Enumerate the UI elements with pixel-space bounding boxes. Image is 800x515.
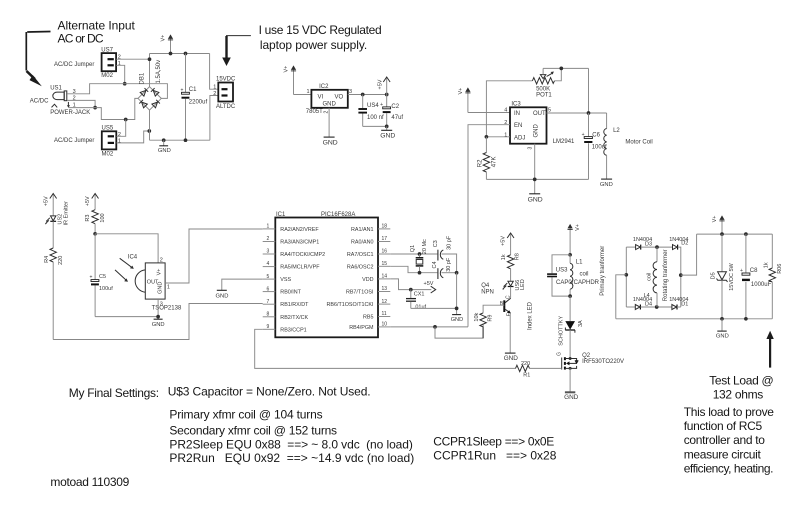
svg-text:My Final Settings:: My Final Settings: bbox=[69, 386, 159, 400]
ground (bridge) bbox=[158, 140, 171, 154]
junction dot L1 top bbox=[568, 253, 572, 257]
wire right column to top rail bbox=[681, 234, 697, 275]
+5V arrow (IC2 out) bbox=[383, 77, 390, 95]
svg-text:R8: R8 bbox=[515, 253, 521, 260]
pin 7 stub (RB1/RX/DT) bbox=[263, 299, 309, 308]
pin 14 stub (VDD) bbox=[362, 274, 390, 283]
wire D3-D2 top row bbox=[626, 246, 635, 248]
junction dot Q2 source bbox=[569, 367, 572, 370]
svg-text:1: 1 bbox=[504, 132, 507, 138]
resistor R2 47K bbox=[483, 137, 489, 180]
svg-text:M02: M02 bbox=[101, 73, 113, 79]
ground (IC2) bbox=[323, 137, 338, 147]
svg-text:1: 1 bbox=[167, 284, 170, 290]
pin 8 stub (RB2/TX/CK) bbox=[263, 311, 309, 320]
svg-text:PR2Sleep EQU 0x88 ==> ~ 8.0 v: PR2Sleep EQU 0x88 ==> ~ 8.0 vdc (no load… bbox=[169, 437, 412, 451]
svg-text:This load to prove: This load to prove bbox=[684, 405, 775, 419]
pin 11 stub (RB5) bbox=[363, 311, 390, 320]
svg-text:efficiency, heating.: efficiency, heating. bbox=[684, 462, 773, 476]
V+ symbol (test load rail) bbox=[719, 215, 724, 234]
wire US7 pin1 down to AC line bbox=[116, 65, 124, 83]
svg-text:D2: D2 bbox=[681, 241, 688, 247]
diode D1 1N4004 bbox=[672, 305, 677, 310]
pin 6 stub (RB0/INT) bbox=[263, 286, 302, 295]
wire IC2 VO line bbox=[348, 94, 387, 96]
wire bridge top column bbox=[149, 54, 151, 87]
svg-text:GND: GND bbox=[600, 182, 613, 188]
svg-text:D1: D1 bbox=[681, 301, 688, 307]
capacitor C5 plates bbox=[90, 275, 99, 286]
top rail (secondary) bbox=[697, 233, 773, 235]
svg-text:GND: GND bbox=[323, 140, 338, 147]
svg-text:1k: 1k bbox=[501, 254, 507, 260]
IC2 GND stub bbox=[328, 108, 330, 137]
svg-text:100uf: 100uf bbox=[99, 286, 113, 292]
wire D4-D1 bottom row bbox=[626, 306, 635, 308]
junction dot R3/C5/TSOP bbox=[93, 232, 97, 236]
svg-text:POT1: POT1 bbox=[536, 92, 552, 98]
svg-text:1: 1 bbox=[307, 89, 310, 95]
callout arrow head (down to 15VDC) bbox=[222, 36, 231, 66]
svg-text:C3: C3 bbox=[433, 240, 439, 247]
wire C5 bottom to TSOP gnd bbox=[95, 316, 158, 318]
svg-text:+: + bbox=[380, 102, 383, 108]
junction dot D5 bottom bbox=[720, 317, 724, 321]
junction dot ADJ/R2 bbox=[485, 135, 489, 139]
svg-text:NPN: NPN bbox=[481, 290, 494, 296]
svg-text:R1: R1 bbox=[523, 373, 530, 379]
junction dot L4 top bbox=[655, 245, 659, 249]
svg-text:18: 18 bbox=[382, 224, 388, 230]
svg-text:R06: R06 bbox=[777, 264, 783, 274]
pin 15 stub (RA6/OSC2) bbox=[347, 261, 390, 270]
wire ADJ bbox=[486, 136, 510, 138]
junction dot left column mid bbox=[624, 273, 628, 277]
svg-text:GND: GND bbox=[564, 394, 579, 401]
ground (crystal) bbox=[451, 315, 463, 323]
junction dot V+ stem bbox=[169, 52, 173, 56]
junction dot pot wiper bbox=[559, 67, 563, 71]
wire EN long vertical bbox=[468, 125, 510, 327]
svg-text:CCPR1Sleep ==> 0x0E: CCPR1Sleep ==> 0x0E bbox=[433, 434, 554, 448]
svg-text:2: 2 bbox=[160, 257, 163, 263]
svg-text:Secondary xfmr coil @ 152 turn: Secondary xfmr coil @ 152 turns bbox=[169, 423, 337, 437]
test load arrow bbox=[766, 331, 773, 368]
+5V arrow (R3 column) bbox=[92, 194, 99, 210]
wire OUT to L2 bbox=[606, 113, 608, 129]
wire pin16 after C3 bbox=[442, 254, 457, 273]
capacitor US4 plates bbox=[358, 109, 367, 113]
LED US6 index bbox=[503, 281, 514, 290]
svg-text:C: C bbox=[505, 295, 511, 299]
svg-text:2: 2 bbox=[118, 132, 121, 138]
svg-text:+: + bbox=[740, 268, 743, 274]
svg-text:V+: V+ bbox=[284, 66, 290, 73]
svg-text:4: 4 bbox=[504, 108, 507, 114]
svg-text:100 nf: 100 nf bbox=[367, 115, 384, 121]
junction dot OUT/C6 bbox=[587, 111, 591, 115]
svg-text:IRF530TO220V: IRF530TO220V bbox=[582, 359, 624, 365]
wire L1 to schottky bbox=[569, 296, 571, 321]
svg-text:CCPR1Run ==> 0x28: CCPR1Run ==> 0x28 bbox=[433, 448, 556, 462]
resistor R4 220 bbox=[50, 248, 56, 340]
wire TSOP gnd stub bbox=[157, 299, 159, 319]
svg-text:1: 1 bbox=[213, 85, 216, 91]
V+ symbol (primary) bbox=[568, 224, 573, 255]
pin 4 stub (RA5/MCLR/VPF) bbox=[263, 261, 321, 270]
svg-text:motoad 110309: motoad 110309 bbox=[50, 475, 129, 489]
capacitor C6 plates bbox=[582, 132, 593, 143]
svg-text:IC4: IC4 bbox=[128, 254, 138, 260]
svg-text:R4: R4 bbox=[44, 256, 50, 263]
ground (L2) bbox=[600, 179, 613, 188]
wire pin10 detour to R9 bottom bbox=[435, 324, 483, 339]
IC3 LM2941 box bbox=[510, 107, 547, 143]
junction dot C2 top bbox=[385, 93, 389, 97]
svg-text:Index LED: Index LED bbox=[527, 301, 533, 330]
POT1 wiper bbox=[540, 68, 554, 78]
callout text "Alternate Input / AC or DC" bbox=[58, 19, 136, 46]
zener diode D5 bbox=[717, 272, 728, 282]
junction dot right column mid bbox=[679, 273, 683, 277]
svg-text:AC/DC: AC/DC bbox=[30, 98, 49, 104]
svg-text:+5V: +5V bbox=[85, 196, 91, 206]
wire pot to OUT line bbox=[588, 68, 590, 113]
callout leader line bbox=[26, 32, 50, 71]
wire L2 to gnd bbox=[606, 155, 608, 179]
wire US5 pin2 bbox=[117, 120, 126, 137]
callout leader line to 15VDC bbox=[227, 36, 251, 58]
svg-text:V+: V+ bbox=[575, 224, 581, 231]
+5V arrow (VDD) bbox=[431, 286, 436, 293]
bottom GND line bbox=[150, 139, 210, 141]
svg-text:ALTDC: ALTDC bbox=[216, 104, 236, 110]
capacitor C3 bbox=[438, 250, 443, 261]
svg-text:Rotating tranformer: Rotating tranformer bbox=[663, 249, 669, 301]
DB1 diode bottom-right bbox=[152, 100, 160, 108]
wire V+ to IC2 VI bbox=[294, 94, 312, 96]
bridge bottom column bbox=[149, 110, 151, 140]
wire TSOP OUT to PIC pin1 bbox=[165, 229, 263, 283]
svg-text:OUT: OUT bbox=[533, 111, 546, 117]
svg-text:GND: GND bbox=[716, 333, 729, 339]
svg-text:47K: 47K bbox=[491, 157, 497, 168]
svg-text:+5V: +5V bbox=[424, 281, 434, 287]
junction dot CX1 gnd bbox=[455, 307, 459, 311]
bottom rail (secondary) bbox=[616, 318, 773, 320]
ground (VSS) bbox=[216, 290, 229, 299]
svg-text:SCHOTTKY: SCHOTTKY bbox=[559, 316, 565, 346]
ground (C2/US4) bbox=[380, 126, 395, 139]
wire pin9 RB3/CCP1 to R1 bbox=[255, 329, 516, 368]
inductor L1 bbox=[570, 255, 573, 296]
svg-text:IC3: IC3 bbox=[511, 101, 521, 107]
wire pin15 after C4 bbox=[442, 272, 457, 274]
svg-text:132 ohms: 132 ohms bbox=[713, 388, 764, 402]
capacitor C5 wires bbox=[94, 234, 96, 317]
svg-text:RA7/OSC1: RA7/OSC1 bbox=[347, 252, 374, 258]
potentiometer POT1 zigzag bbox=[532, 78, 554, 84]
svg-text:RA3/AN3/CMP1: RA3/AN3/CMP1 bbox=[280, 240, 319, 246]
svg-text:EN: EN bbox=[514, 123, 522, 129]
IR receiver IC4 TSOP box bbox=[135, 263, 165, 299]
svg-text:RB7/T1OSI: RB7/T1OSI bbox=[346, 290, 374, 296]
svg-text:IR Emitter: IR Emitter bbox=[64, 201, 70, 226]
left diode column bbox=[625, 247, 627, 307]
svg-text:2: 2 bbox=[267, 236, 270, 242]
svg-text:.01uf: .01uf bbox=[414, 305, 427, 311]
wire jack pin3 to AC top line bbox=[67, 84, 167, 99]
schottky diode D6 bbox=[565, 321, 575, 333]
DB1 diode bottom-left bbox=[139, 100, 147, 108]
svg-text:IC2: IC2 bbox=[319, 84, 329, 90]
svg-text:220: 220 bbox=[58, 256, 64, 265]
wire D5 column top bbox=[721, 234, 723, 272]
IC3 GND stub bbox=[534, 144, 536, 194]
svg-text:15: 15 bbox=[382, 261, 388, 267]
svg-text:V+: V+ bbox=[458, 88, 464, 95]
IC1 PIC16F628A box bbox=[275, 218, 378, 338]
svg-text:C6: C6 bbox=[592, 133, 600, 139]
svg-text:AC/DC Jumper: AC/DC Jumper bbox=[54, 138, 94, 144]
pin 16 stub (RA7/OSC1) bbox=[347, 249, 390, 258]
pin 13 stub (RB7/T1OSI) bbox=[346, 286, 390, 295]
junction dot GND stub bbox=[162, 138, 166, 142]
junction dot crystal bottom bbox=[418, 271, 422, 275]
svg-text:IN: IN bbox=[514, 111, 520, 117]
svg-text:2: 2 bbox=[213, 91, 216, 97]
svg-text:7: 7 bbox=[267, 299, 270, 305]
wire V+ to IC3 IN bbox=[468, 112, 510, 114]
svg-text:100: 100 bbox=[100, 213, 106, 222]
wire D4 to L4 bottom bbox=[640, 306, 672, 308]
svg-text:AC/DC Jumper: AC/DC Jumper bbox=[54, 62, 94, 68]
svg-text:RA5/MCLR/VPF: RA5/MCLR/VPF bbox=[280, 265, 320, 271]
bridge rectifier DB1 diamond wires bbox=[138, 87, 161, 110]
svg-text:1000uF: 1000uF bbox=[751, 282, 772, 288]
capacitor C2 plates bbox=[380, 102, 391, 113]
svg-text:+: + bbox=[90, 275, 93, 281]
svg-text:GND: GND bbox=[451, 317, 463, 323]
diode D4 1N4004 bbox=[635, 305, 640, 310]
svg-text:1: 1 bbox=[118, 61, 121, 67]
inductor L4 bbox=[653, 247, 657, 307]
pin 12 stub (RB6/T1OSO/T1CKI) bbox=[326, 299, 390, 308]
svg-text:V+: V+ bbox=[156, 269, 162, 276]
svg-text:1: 1 bbox=[267, 224, 270, 230]
wire IC3 OUT line bbox=[547, 112, 607, 114]
pin 18 stub (RA1/AN1) bbox=[351, 224, 390, 233]
V+ symbol (IC3 input) bbox=[465, 87, 470, 112]
svg-text:500K: 500K bbox=[536, 86, 550, 92]
svg-text:function of RC5: function of RC5 bbox=[684, 419, 763, 433]
svg-text:3: 3 bbox=[528, 147, 534, 150]
svg-text:+: + bbox=[582, 132, 585, 138]
svg-text:PR2Run EQU 0x92 ==> ~14.9 v: PR2Run EQU 0x92 ==> ~14.9 vdc (no load) bbox=[169, 451, 414, 465]
V+ symbol (IC2 input) bbox=[291, 65, 296, 94]
svg-text:RA0/AN0: RA0/AN0 bbox=[351, 240, 373, 246]
svg-text:3: 3 bbox=[160, 301, 163, 307]
svg-text:1k: 1k bbox=[763, 262, 769, 268]
capacitor C8 wires bbox=[745, 234, 747, 319]
junction dot bridge bottom / US5 pin1 bbox=[147, 129, 151, 133]
svg-text:G: G bbox=[556, 352, 562, 356]
svg-text:8: 8 bbox=[267, 311, 270, 317]
junction dot C1 top bbox=[184, 52, 188, 56]
svg-text:30 pF: 30 pF bbox=[446, 235, 452, 250]
svg-text:9: 9 bbox=[267, 324, 270, 330]
wire pot wiper jumper bbox=[543, 67, 588, 69]
svg-text:GND: GND bbox=[528, 196, 543, 203]
wire pin10 RB4/PGM line bbox=[390, 326, 468, 328]
junction dot CX1 top bbox=[409, 288, 413, 292]
junction dot TSOP gnd bbox=[156, 315, 160, 319]
svg-text:RB2/TX/CK: RB2/TX/CK bbox=[280, 315, 308, 321]
svg-text:laptop power supply.: laptop power supply. bbox=[260, 38, 367, 52]
svg-text:RA2/AN2/VREF: RA2/AN2/VREF bbox=[280, 227, 319, 233]
svg-text:GND: GND bbox=[380, 132, 395, 139]
junction dot C2 bottom bbox=[385, 125, 389, 129]
wire pot top rail bbox=[486, 81, 532, 137]
svg-text:US4: US4 bbox=[367, 103, 379, 109]
svg-text:IC1: IC1 bbox=[276, 212, 286, 218]
inductor L2 bbox=[604, 129, 607, 156]
svg-text:LED: LED bbox=[520, 279, 526, 290]
svg-text:Primary xfmr coil @ 104 turns: Primary xfmr coil @ 104 turns bbox=[169, 407, 322, 421]
wire pin15 OSC2 line bbox=[390, 266, 437, 272]
svg-text:4: 4 bbox=[267, 261, 270, 267]
power jack US1 symbol bbox=[52, 91, 71, 108]
wire D5 column bottom bbox=[721, 280, 723, 319]
IC3 pin numbers bbox=[504, 108, 551, 150]
V+ symbol (alt input) bbox=[168, 34, 173, 53]
jack pin numbers 3 2 1 bbox=[73, 89, 76, 109]
svg-text:RB4/PGM: RB4/PGM bbox=[349, 325, 374, 331]
DB1 diode top-right bbox=[151, 88, 159, 96]
svg-text:RA6/OSC2: RA6/OSC2 bbox=[347, 264, 374, 270]
svg-text:6: 6 bbox=[267, 286, 270, 292]
svg-text:2200uf: 2200uf bbox=[189, 99, 208, 105]
svg-text:coil: coil bbox=[580, 271, 589, 277]
svg-text:V+: V+ bbox=[161, 35, 167, 42]
wire US5 pin1 bbox=[117, 131, 150, 143]
svg-text:7805T: 7805T bbox=[306, 109, 323, 115]
ground (IC3) bbox=[528, 194, 543, 204]
svg-text:2: 2 bbox=[324, 111, 330, 114]
callout text "I use 15 VDC Regulated laptop power supply." bbox=[259, 23, 382, 52]
wire crystal gnd column bbox=[456, 273, 458, 315]
pin 17 stub (RA0/AN0) bbox=[351, 236, 390, 245]
junction dot C1 bottom bbox=[184, 138, 188, 142]
wire R1 to Q2 gate bbox=[530, 367, 562, 369]
wire VSS pin5 to gnd bbox=[222, 279, 263, 290]
LED US2 IR emitter bbox=[45, 216, 56, 225]
svg-text:I use 15 VDC Regulated: I use 15 VDC Regulated bbox=[259, 23, 382, 37]
top V+ line bbox=[150, 53, 210, 55]
resistor R9 10k bbox=[480, 313, 486, 338]
transistor Q2 MOSFET bbox=[562, 357, 579, 369]
wire to 15VDC pin2 bbox=[210, 96, 218, 141]
svg-text:GND: GND bbox=[158, 148, 171, 154]
svg-text:RA4/TOCKI/CMP2: RA4/TOCKI/CMP2 bbox=[280, 252, 325, 258]
wire US2 to R4 bbox=[52, 221, 54, 248]
wire D2 to column bbox=[678, 247, 681, 307]
wire CX1 to gnd column bbox=[411, 307, 457, 309]
svg-text:controller and to: controller and to bbox=[684, 433, 766, 447]
junction dot V+/D5 top bbox=[720, 232, 724, 236]
IR arrow 1 into dome bbox=[120, 258, 134, 269]
svg-text:RB6/T1OSO/T1CKI: RB6/T1OSO/T1CKI bbox=[326, 302, 373, 308]
svg-text:1: 1 bbox=[118, 139, 121, 145]
pin 5 stub (VSS) bbox=[263, 274, 292, 283]
resistor R1 220 on gate line bbox=[516, 365, 530, 371]
svg-text:GND: GND bbox=[152, 322, 165, 328]
svg-text:U$3 Capacitor = None/Zero. Not: U$3 Capacitor = None/Zero. Not Used. bbox=[168, 384, 371, 398]
svg-text:CAP0(CAPHDR: CAP0(CAPHDR bbox=[556, 280, 600, 286]
svg-text:POWER-JACK: POWER-JACK bbox=[50, 110, 90, 116]
DB1 diode top-left bbox=[140, 88, 148, 96]
svg-text:220: 220 bbox=[521, 361, 530, 367]
pin 9 stub (RB3/CCP1) bbox=[263, 324, 307, 333]
svg-text:D5: D5 bbox=[710, 272, 716, 279]
svg-text:20 Mc: 20 Mc bbox=[422, 239, 428, 254]
capacitor C2 wires bbox=[386, 95, 388, 127]
diode D2 1N4004 bbox=[673, 245, 678, 250]
svg-text:LM2941: LM2941 bbox=[553, 139, 575, 145]
junction dot US4 top bbox=[361, 93, 365, 97]
svg-text:GND: GND bbox=[504, 355, 519, 362]
wire D1 to column bbox=[677, 306, 681, 308]
ground (Q4) bbox=[504, 353, 519, 362]
svg-text:GND: GND bbox=[534, 124, 540, 138]
capacitor US3 wires bbox=[552, 255, 570, 296]
svg-text:+5V: +5V bbox=[43, 196, 49, 206]
ground (Q2) bbox=[564, 392, 579, 401]
svg-text:VSS: VSS bbox=[280, 277, 291, 283]
svg-text:VI: VI bbox=[318, 94, 324, 100]
svg-text:R3: R3 bbox=[85, 215, 91, 222]
svg-text:GND: GND bbox=[216, 293, 229, 299]
svg-text:M02: M02 bbox=[102, 151, 114, 157]
svg-text:Alternate Input: Alternate Input bbox=[58, 19, 136, 33]
wire R4 to PIC pin7 bbox=[53, 304, 263, 340]
svg-text:RB1/RX/DT: RB1/RX/DT bbox=[280, 302, 309, 308]
wire US7 pin2 to bridge column bbox=[116, 58, 149, 60]
svg-text:Primary tranformer: Primary tranformer bbox=[600, 246, 606, 296]
junction dot C8 top bbox=[744, 232, 748, 236]
svg-text:2: 2 bbox=[118, 55, 121, 61]
svg-text:VO: VO bbox=[335, 94, 344, 100]
svg-text:+: + bbox=[181, 87, 184, 93]
svg-text:US5: US5 bbox=[102, 126, 114, 132]
svg-text:US7: US7 bbox=[101, 47, 113, 53]
+5V arrow (US2 column) bbox=[50, 194, 57, 216]
svg-text:3A: 3A bbox=[578, 320, 584, 327]
resistor R3 100 bbox=[92, 210, 98, 234]
svg-text:17: 17 bbox=[382, 236, 388, 242]
capacitor US4 wires bbox=[362, 95, 364, 127]
wire Q2 source to gnd bbox=[569, 368, 571, 391]
svg-text:C8: C8 bbox=[750, 268, 758, 274]
svg-text:US1: US1 bbox=[50, 85, 62, 91]
capacitor C1 wires bbox=[185, 54, 187, 141]
pin 3 stub (RA4/TOCKI/CMP2) bbox=[263, 249, 325, 258]
svg-text:RB5: RB5 bbox=[363, 315, 374, 321]
transistor Q4 NPN bbox=[504, 298, 511, 313]
pin 10 stub (RB4/PGM) bbox=[349, 322, 390, 331]
junction dot Q2 drain bbox=[569, 357, 572, 360]
svg-text:47uf: 47uf bbox=[391, 115, 403, 121]
